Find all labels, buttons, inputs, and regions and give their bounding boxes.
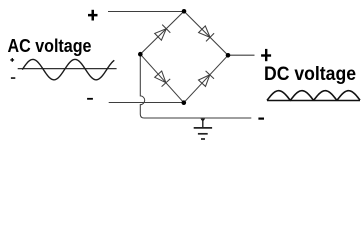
wire DC- from left node with hop and corner to bottom rail: [140, 56, 251, 118]
diode D1 top-left: [155, 29, 167, 41]
svg-text:AC voltage: AC voltage: [8, 36, 92, 56]
label - (DC right): [258, 118, 264, 120]
label + (AC top): [88, 10, 98, 21]
wire AC- lower: [109, 102, 182, 104]
label - (sine small): [11, 77, 15, 79]
wire bridge edge left-bottom: [140, 54, 184, 102]
diode D3 bottom-left: [155, 71, 166, 83]
label + (sine small): [10, 58, 14, 62]
wire bridge edge top-right: [184, 11, 228, 55]
wire DC+ right: [228, 54, 255, 56]
wire bridge edge bottom-right: [184, 55, 228, 102]
node top (junction dot): [182, 9, 187, 14]
DC waveform baseline: [267, 100, 360, 102]
svg-text:DC voltage: DC voltage: [264, 64, 356, 85]
node bottom (junction dot): [182, 100, 187, 105]
sine axis: [18, 68, 117, 70]
label - (AC bottom): [87, 98, 93, 100]
DC waveform humps: [267, 91, 360, 101]
node right (junction dot): [226, 53, 231, 58]
ground: [194, 119, 212, 140]
wire bridge edge left-top: [140, 11, 184, 54]
node left (junction dot): [138, 52, 143, 57]
wire AC+ top: [108, 11, 184, 13]
label + (DC right): [261, 49, 271, 61]
diode D2 top-right: [199, 26, 211, 38]
diode D4 bottom-right: [199, 75, 210, 87]
AC sine waveform: [22, 59, 114, 79]
